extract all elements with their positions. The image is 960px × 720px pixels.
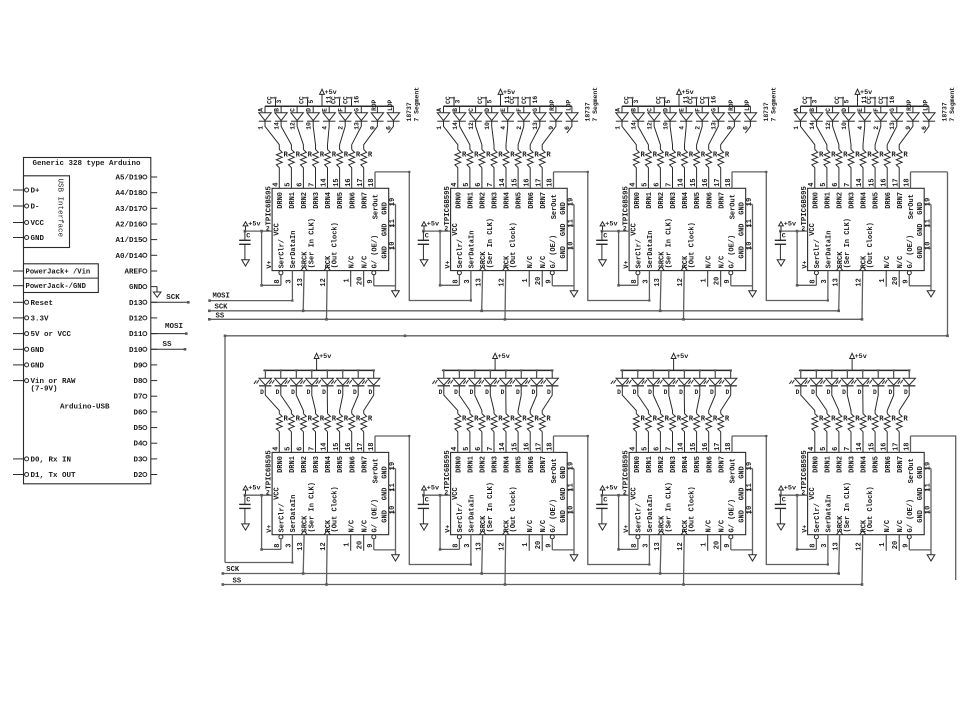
svg-text:12: 12	[499, 542, 507, 550]
svg-text:CC: CC	[624, 96, 631, 104]
svg-text:11: 11	[568, 483, 576, 491]
svg-text:10: 10	[568, 506, 576, 514]
svg-text:A5/D19: A5/D19	[115, 175, 143, 183]
svg-text:8: 8	[809, 543, 817, 547]
pin 12 RCK wire to SS of U5	[320, 535, 328, 586]
svg-text:14: 14	[499, 178, 507, 186]
pin 1 N/C stub of U1	[344, 271, 352, 287]
svg-text:F: F	[873, 108, 880, 112]
svg-text:+5v: +5v	[605, 485, 617, 493]
pin 1 N/C stub of U6	[522, 535, 530, 551]
svg-text:DRN7: DRN7	[897, 192, 905, 209]
svg-text:G/ (OE/): G/ (OE/)	[371, 499, 379, 533]
svg-text:D: D	[811, 389, 815, 396]
svg-text:D: D	[663, 108, 670, 112]
svg-text:PowerJack-/GND: PowerJack-/GND	[26, 283, 87, 291]
svg-text:DRN1: DRN1	[646, 456, 654, 473]
resistor R (drain 14) of U8	[856, 414, 872, 453]
svg-text:1: 1	[879, 278, 887, 282]
svg-text:DRN7: DRN7	[361, 456, 369, 473]
diode segment LDP of U1	[386, 99, 400, 133]
LED D5 of U8	[867, 369, 885, 413]
resistor R (drain 17) of U5	[357, 414, 373, 453]
svg-text:14: 14	[452, 122, 459, 130]
pin 20 N/C stub of U6	[535, 535, 543, 551]
svg-text:DRN7: DRN7	[540, 456, 548, 473]
svg-text:R: R	[879, 416, 884, 424]
pin 20 N/C stub of U1	[357, 271, 365, 287]
svg-text:C: C	[782, 497, 786, 505]
svg-text:R: R	[819, 152, 824, 160]
svg-text:SerDataIn: SerDataIn	[469, 231, 477, 269]
svg-text:F: F	[695, 108, 702, 112]
shift register U8: TPIC6B595	[801, 450, 925, 535]
wire +5V bus over display of U4	[801, 105, 929, 107]
diode segment C of U3	[646, 106, 660, 149]
svg-text:N/C: N/C	[718, 256, 726, 269]
svg-text:Generic 328 type Arduino: Generic 328 type Arduino	[33, 160, 142, 168]
svg-text:DRN4: DRN4	[682, 456, 690, 473]
svg-text:6: 6	[654, 447, 662, 451]
svg-text:N/C: N/C	[361, 520, 369, 533]
svg-text:R: R	[510, 416, 515, 424]
svg-text:DRN1: DRN1	[825, 456, 833, 473]
svg-text:C: C	[425, 497, 429, 505]
svg-text:7: 7	[487, 447, 495, 451]
Arduino right pin AREF	[124, 269, 157, 277]
svg-text:3: 3	[821, 279, 829, 283]
svg-text:17: 17	[892, 178, 900, 186]
svg-text:7: 7	[666, 447, 674, 451]
Arduino left pin GND	[13, 362, 45, 370]
svg-text:V+: V+	[801, 261, 808, 269]
common-anode pin CC 16 of U3	[700, 96, 718, 107]
svg-text:TPIC6B595: TPIC6B595	[444, 450, 452, 489]
svg-text:V+: V+	[444, 261, 451, 269]
svg-text:15: 15	[511, 178, 519, 186]
svg-text:R: R	[498, 416, 503, 424]
svg-text:+5v: +5v	[248, 485, 260, 493]
svg-text:4: 4	[630, 183, 638, 187]
svg-text:16: 16	[880, 442, 888, 450]
svg-text:SerClr/: SerClr/	[636, 239, 644, 268]
svg-text:6: 6	[832, 183, 840, 187]
svg-text:3: 3	[821, 543, 829, 547]
svg-text:N/C: N/C	[527, 256, 535, 269]
svg-text:G/ (OE/): G/ (OE/)	[371, 235, 379, 269]
svg-text:Reset: Reset	[31, 300, 54, 308]
Arduino right pin D11	[129, 331, 157, 339]
pin 18 SerOut of U2	[547, 172, 555, 188]
svg-text:5: 5	[642, 447, 650, 451]
resistor R (drain 17) of U8	[892, 414, 908, 453]
pin 13 SRCK wire to SCK of U2	[476, 271, 484, 313]
svg-text:3: 3	[464, 543, 472, 547]
svg-text:D: D	[454, 389, 458, 396]
svg-text:DRN2: DRN2	[301, 456, 309, 473]
svg-text:12: 12	[825, 122, 832, 130]
svg-text:11: 11	[746, 483, 754, 491]
common-anode pin CC 5 of U1	[299, 96, 315, 106]
svg-text:10: 10	[389, 506, 397, 514]
LED D1 of U5	[269, 369, 291, 413]
common-anode pin CC 3 of U3	[624, 96, 640, 106]
ground symbol at capacitor of U3	[599, 260, 607, 266]
svg-text:2: 2	[444, 489, 448, 496]
svg-text:(Out Clock): (Out Clock)	[510, 486, 518, 532]
svg-text:R: R	[713, 152, 718, 160]
svg-text:R: R	[819, 416, 824, 424]
svg-text:N/C: N/C	[540, 520, 548, 533]
svg-text:1: 1	[793, 126, 800, 130]
svg-text:DRN2: DRN2	[837, 192, 845, 209]
common-anode pin CC 3 of U4	[802, 96, 818, 106]
svg-text:(Ser In CLK): (Ser In CLK)	[844, 482, 852, 532]
svg-text:R: R	[368, 152, 373, 160]
svg-text:6: 6	[832, 447, 840, 451]
wire SerClr/ (pin 8) tie to +5V of U8	[796, 495, 819, 550]
svg-text:V+: V+	[266, 261, 273, 269]
resistor R (drain 7) of U3	[666, 150, 682, 189]
svg-text:14: 14	[499, 442, 507, 450]
svg-text:D10: D10	[129, 347, 143, 355]
pin 3 SerDataIn wire of U5	[285, 535, 293, 563]
wire SS bus top row	[208, 318, 862, 321]
wire SS bus bottom row	[222, 583, 862, 586]
svg-text:20: 20	[535, 277, 543, 285]
LED D5 of U6	[510, 369, 528, 413]
svg-text:N/C: N/C	[361, 256, 369, 269]
Arduino right pin D3	[133, 456, 157, 464]
display name 18737 7 Segment of U3	[763, 87, 777, 122]
wire SerOut U4 to right edge	[911, 171, 948, 173]
shift register U7: TPIC6B595	[622, 450, 746, 535]
LED D6 of U8	[882, 369, 900, 413]
svg-text:SerOut: SerOut	[730, 458, 738, 483]
svg-text:18737: 18737	[406, 102, 413, 121]
LED D2 of U8	[820, 369, 839, 413]
resistor R (drain 15) of U4	[868, 150, 884, 189]
svg-text:B: B	[631, 108, 638, 112]
svg-text:VCC: VCC	[631, 487, 639, 500]
svg-text:VCC: VCC	[274, 487, 282, 500]
+5V supply symbol at U5 VCC	[243, 485, 260, 496]
shift register U6: TPIC6B595	[444, 450, 568, 535]
svg-text:16: 16	[702, 442, 710, 450]
diode segment D of U1	[306, 106, 320, 149]
wire +5V bus over LEDs of U7	[620, 369, 732, 371]
svg-text:DRN4: DRN4	[682, 192, 690, 209]
svg-text:CC: CC	[299, 96, 306, 104]
svg-text:R: R	[641, 416, 646, 424]
svg-text:+5v: +5v	[855, 353, 867, 361]
svg-text:19: 19	[568, 198, 576, 206]
svg-text:DRN0: DRN0	[812, 192, 820, 209]
svg-text:5: 5	[487, 100, 494, 104]
svg-text:(Out Clock): (Out Clock)	[510, 222, 518, 268]
LED D6 of U5	[347, 369, 365, 413]
wire SerOut U6 to SerDataIn U7	[554, 435, 651, 566]
svg-text:8: 8	[274, 543, 282, 547]
svg-text:DRN3: DRN3	[492, 456, 500, 473]
svg-text:G/ (OE/): G/ (OE/)	[550, 499, 558, 533]
svg-text:CC: CC	[343, 96, 350, 104]
svg-text:5: 5	[308, 100, 315, 104]
svg-text:+5v: +5v	[427, 221, 439, 229]
svg-text:R: R	[843, 416, 848, 424]
svg-text:10: 10	[746, 242, 754, 250]
svg-text:1: 1	[522, 278, 530, 282]
pin 3 SerDataIn wire of U4	[821, 271, 829, 301]
Arduino right pin A0/D14	[115, 253, 157, 261]
pin 13 SRCK wire to SCK of U6	[476, 535, 484, 575]
svg-text:D0, Rx IN: D0, Rx IN	[31, 456, 72, 464]
ground symbol of U5	[392, 555, 400, 561]
ground symbol of U2	[570, 291, 578, 297]
svg-text:R: R	[831, 416, 836, 424]
svg-text:D: D	[439, 389, 443, 396]
svg-text:R: R	[701, 416, 706, 424]
svg-text:R: R	[284, 416, 289, 424]
svg-text:3: 3	[276, 100, 283, 104]
ground symbol on Arduino GND pin	[153, 287, 161, 298]
svg-text:SerDataIn: SerDataIn	[826, 231, 834, 269]
svg-text:2: 2	[801, 489, 805, 496]
svg-text:C: C	[290, 108, 297, 112]
svg-text:DRN6: DRN6	[349, 456, 357, 473]
svg-text:18737: 18737	[763, 102, 770, 121]
svg-text:4: 4	[857, 126, 864, 130]
LED D4 of U7	[673, 369, 691, 413]
pin 18 SerOut of U6	[547, 436, 555, 452]
LED D6 of U6	[525, 369, 543, 413]
svg-text:10: 10	[306, 122, 313, 130]
svg-text:R: R	[855, 416, 860, 424]
resistor R (drain 6) of U6	[475, 414, 491, 453]
svg-text:2: 2	[623, 225, 627, 232]
pin 13 SRCK wire to SCK of U5	[297, 535, 305, 575]
pin 9 G/(OE/) and GND pins 19,11,10 to ground of U6	[545, 462, 575, 555]
diode segment C of U4	[825, 106, 839, 149]
svg-text:6: 6	[475, 447, 483, 451]
pin 18 SerOut of U5	[368, 436, 376, 452]
svg-text:B: B	[273, 108, 280, 112]
diode segment LDP of U2	[564, 99, 578, 133]
svg-text:16: 16	[523, 442, 531, 450]
svg-text:11: 11	[389, 219, 397, 227]
+5V supply symbol on display bus of U2	[498, 89, 515, 107]
svg-text:TPIC6B595: TPIC6B595	[801, 186, 809, 225]
diode segment F of U2	[516, 106, 530, 149]
common-anode pin CC 11 of U2	[504, 96, 519, 107]
svg-text:+5v: +5v	[784, 485, 796, 493]
diode segment B of U1	[273, 106, 291, 149]
svg-text:(Out Clock): (Out Clock)	[688, 486, 696, 532]
svg-text:20: 20	[714, 541, 722, 549]
svg-text:R: R	[641, 152, 646, 160]
pin 12 RCK wire to SS of U1	[320, 271, 328, 321]
diode segment E of U3	[679, 106, 693, 149]
diode segment G of U2	[530, 106, 546, 149]
svg-text:17: 17	[714, 178, 722, 186]
svg-text:3: 3	[642, 543, 650, 547]
wire SerOut chain: top U4 to bottom U5 (right edge down, long horizontal, left edge down)	[224, 172, 949, 564]
svg-text:A3/D17: A3/D17	[115, 206, 142, 214]
LED D5 of U5	[331, 369, 349, 413]
svg-text:R: R	[725, 152, 730, 160]
resistor R (drain 4) of U6	[451, 414, 467, 453]
svg-text:(Out Clock): (Out Clock)	[331, 486, 339, 532]
svg-text:4: 4	[808, 447, 816, 451]
svg-text:15: 15	[511, 442, 519, 450]
svg-text:D: D	[842, 389, 846, 396]
svg-text:11: 11	[325, 96, 332, 104]
resistor R (drain 5) of U5	[285, 414, 301, 453]
Arduino USB pin D-	[13, 204, 40, 212]
svg-text:7: 7	[309, 447, 317, 451]
pin 9 G/(OE/) and GND pins 19,11,10 to ground of U2	[545, 198, 575, 291]
capacitor C of U1	[239, 231, 250, 260]
resistor R (drain 15) of U6	[511, 414, 527, 453]
svg-text:15: 15	[333, 442, 341, 450]
svg-text:DRN4: DRN4	[325, 456, 333, 473]
svg-text:8: 8	[809, 279, 817, 283]
svg-text:2: 2	[873, 126, 880, 130]
svg-text:9: 9	[902, 279, 910, 283]
svg-text:14: 14	[321, 178, 329, 186]
svg-text:D8: D8	[133, 378, 143, 386]
resistor R (drain 4) of U3	[630, 150, 646, 189]
net label SCK on D13	[151, 294, 190, 304]
svg-text:A: A	[436, 108, 443, 112]
svg-text:17: 17	[357, 178, 365, 186]
svg-text:DRN3: DRN3	[849, 192, 857, 209]
svg-text:R: R	[522, 152, 527, 160]
svg-text:R: R	[855, 152, 860, 160]
svg-text:DRN2: DRN2	[301, 192, 309, 209]
svg-text:14: 14	[678, 442, 686, 450]
resistor R (drain 4) of U8	[808, 414, 824, 453]
+5V supply symbol on LED bus of U7	[671, 353, 688, 371]
svg-text:4: 4	[630, 447, 638, 451]
svg-text:7: 7	[309, 183, 317, 187]
diode segment G of U3	[709, 106, 725, 149]
svg-text:N/C: N/C	[705, 256, 713, 269]
svg-text:15: 15	[333, 178, 341, 186]
svg-text:(7-9V): (7-9V)	[31, 386, 58, 394]
svg-text:VCC: VCC	[452, 487, 460, 500]
svg-text:DRN1: DRN1	[468, 192, 476, 209]
svg-text:14: 14	[321, 442, 329, 450]
svg-text:+5v: +5v	[605, 221, 617, 229]
svg-text:9: 9	[545, 543, 553, 547]
svg-text:DRN3: DRN3	[670, 456, 678, 473]
svg-text:18: 18	[725, 442, 733, 450]
svg-text:7 Segment: 7 Segment	[414, 87, 421, 122]
svg-text:13: 13	[297, 278, 305, 286]
svg-text:R: R	[546, 416, 551, 424]
svg-text:6: 6	[654, 183, 662, 187]
common-anode pin CC 5 of U3	[656, 96, 672, 106]
svg-text:CC: CC	[445, 96, 452, 104]
svg-text:7 Segment: 7 Segment	[771, 87, 778, 122]
USB interface block	[24, 176, 70, 248]
pin 20 N/C stub of U3	[714, 271, 722, 287]
svg-text:12: 12	[856, 278, 864, 286]
svg-text:5: 5	[463, 183, 471, 187]
svg-text:5: 5	[820, 447, 828, 451]
+5V supply symbol at U4 VCC	[779, 221, 796, 232]
svg-text:7 Segment: 7 Segment	[592, 87, 599, 122]
pin PowerJack-/GND	[13, 283, 87, 291]
resistor R (drain 7) of U4	[844, 150, 860, 189]
shift register U3: TPIC6B595	[622, 186, 746, 271]
svg-text:C: C	[603, 497, 607, 505]
svg-text:+5v: +5v	[319, 353, 331, 361]
svg-text:16: 16	[532, 96, 539, 104]
svg-text:(Ser In CLK): (Ser In CLK)	[665, 218, 673, 268]
svg-text:RDP: RDP	[371, 99, 378, 110]
svg-text:10: 10	[662, 122, 669, 130]
svg-text:Arduino-USB: Arduino-USB	[60, 404, 110, 412]
pin 20 N/C stub of U8	[892, 535, 900, 551]
svg-text:16: 16	[889, 96, 896, 104]
Arduino right pin D10	[129, 347, 157, 355]
pin 18 SerOut of U4	[904, 172, 912, 188]
svg-text:A1/D15: A1/D15	[115, 237, 143, 245]
svg-text:SerDataIn: SerDataIn	[647, 495, 655, 533]
wire VCC node of U3 (pin 2)	[601, 225, 630, 232]
+5V supply symbol on LED bus of U6	[493, 353, 510, 371]
LED D3 of U6	[479, 369, 497, 413]
svg-text:A2/D16: A2/D16	[115, 222, 143, 230]
LED D1 of U8	[805, 369, 827, 413]
diode segment LDP of U3	[743, 99, 757, 133]
svg-text:CC: CC	[700, 96, 707, 104]
svg-text:A4/D18: A4/D18	[115, 190, 143, 198]
svg-text:R: R	[510, 152, 515, 160]
wire +5V bus over display of U2	[444, 105, 572, 107]
Arduino left pin Vin or RAW	[13, 378, 76, 394]
+5V supply symbol at U6 VCC	[422, 485, 439, 496]
svg-text:20: 20	[357, 277, 365, 285]
wire SerOut U8 trailing	[911, 436, 956, 580]
wire SerOut U2 to SerDataIn U3	[554, 171, 651, 302]
svg-text:N/C: N/C	[540, 256, 548, 269]
resistor R (drain 14) of U3	[678, 150, 694, 189]
resistor R (drain 17) of U6	[535, 414, 551, 453]
pin 13 SRCK wire to SCK of U8	[833, 535, 841, 575]
svg-text:D: D	[873, 389, 877, 396]
ground symbol at capacitor of U5	[242, 524, 250, 530]
svg-text:DRN7: DRN7	[897, 456, 905, 473]
shift register U5: TPIC6B595	[265, 450, 389, 535]
svg-text:DRN4: DRN4	[504, 192, 512, 209]
svg-text:13: 13	[476, 542, 484, 550]
resistor R (drain 4) of U1	[273, 150, 289, 189]
svg-text:1: 1	[257, 126, 264, 130]
svg-text:D: D	[858, 389, 862, 396]
svg-text:SerOut: SerOut	[908, 194, 916, 219]
svg-text:(Ser In CLK): (Ser In CLK)	[487, 218, 495, 268]
svg-text:+5v: +5v	[248, 221, 260, 229]
svg-text:2: 2	[444, 225, 448, 232]
svg-text:VCC: VCC	[452, 223, 460, 236]
pin 18 SerOut of U3	[725, 172, 733, 188]
svg-text:SCK: SCK	[215, 303, 229, 311]
svg-text:15: 15	[868, 442, 876, 450]
pin 13 SRCK wire to SCK of U3	[654, 271, 662, 313]
